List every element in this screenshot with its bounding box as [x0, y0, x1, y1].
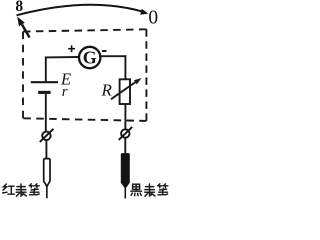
wire: battery down to left terminal	[45, 94, 47, 132]
svg-text:G: G	[83, 48, 97, 68]
dashed box right edge	[145, 29, 147, 121]
char 笔	[158, 184, 168, 195]
minus sign (right of G)	[102, 50, 107, 52]
svg-text:R: R	[101, 81, 113, 100]
right terminal (jack)	[121, 129, 129, 137]
battery short thick plate	[38, 91, 50, 94]
wire: right terminal to black probe	[124, 138, 126, 155]
black probe tip	[124, 188, 126, 198]
wire: resistor down to right terminal	[124, 104, 126, 129]
scale arc arrowhead (right end, at 0)	[140, 9, 148, 15]
resistor arrow	[111, 82, 136, 100]
resistor R body	[120, 79, 130, 104]
char 笔	[29, 184, 39, 195]
dashed box left edge	[22, 32, 24, 119]
wire: left terminal to red probe	[45, 140, 47, 159]
svg-text:0: 0	[148, 7, 158, 28]
left terminal (jack)	[42, 132, 50, 140]
red probe body (outline)	[44, 159, 50, 187]
meter needle pointing to infinity	[22, 25, 30, 38]
red probe tip	[46, 186, 48, 198]
dashed box bottom edge	[23, 118, 146, 121]
scale arc	[17, 5, 145, 16]
char 表	[145, 184, 155, 196]
svg-text:r: r	[62, 84, 68, 100]
plus sign (left of G)	[68, 45, 75, 52]
wire: top-right horizontal	[101, 55, 127, 57]
dashed box top edge	[23, 29, 146, 31]
char 红	[3, 184, 15, 194]
char 表	[16, 184, 26, 196]
battery E long plate	[31, 81, 58, 83]
black probe body (solid)	[121, 154, 129, 189]
wire: top-left horizontal	[45, 56, 79, 58]
wire: left vertical (top wire to battery)	[45, 57, 47, 83]
char 黑	[131, 184, 142, 195]
galvanometer G	[79, 47, 100, 68]
wire: right vertical (top wire to resistor)	[124, 55, 126, 79]
